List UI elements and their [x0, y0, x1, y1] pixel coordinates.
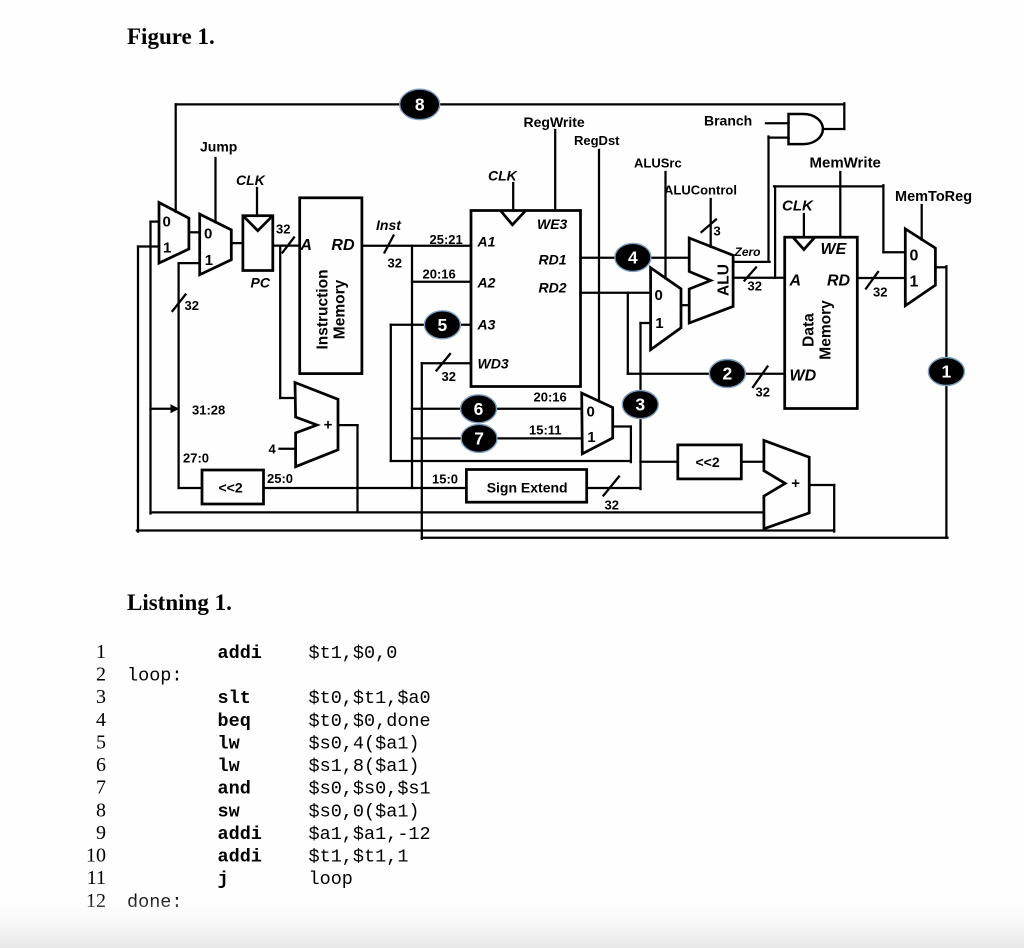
svg-text:27:0: 27:0 — [183, 451, 209, 466]
wire PC to Instruction Memory — [273, 244, 300, 246]
svg-text:A3: A3 — [477, 316, 496, 332]
svg-text:32: 32 — [873, 285, 887, 300]
svg-text:15:0: 15:0 — [432, 472, 458, 487]
mux M1 PCSrc — [159, 203, 189, 264]
mux M4 ALUSrc — [651, 268, 681, 350]
svg-text:A: A — [789, 272, 802, 289]
node marker 5 — [424, 311, 460, 339]
bus slash data memory RD — [866, 272, 878, 289]
adder A1 PC plus 4 — [295, 383, 338, 467]
svg-text:slt: slt — [218, 688, 251, 709]
svg-text:$a1,$a1,-12: $a1,$a1,-12 — [309, 824, 431, 845]
svg-text:A: A — [299, 237, 312, 254]
adder A2 branch target — [764, 440, 809, 528]
svg-text:Figure 1.: Figure 1. — [127, 24, 215, 49]
svg-text:1: 1 — [910, 274, 919, 291]
svg-text:CLK: CLK — [782, 198, 814, 215]
wire ALUResult bypass riser — [774, 186, 776, 277]
svg-text:32: 32 — [748, 279, 762, 294]
memory U1 Instruction Memory — [300, 198, 362, 374]
svg-text:32: 32 — [388, 256, 402, 271]
wire PCBranch bottom horizontal — [137, 529, 834, 531]
svg-text:WE: WE — [821, 241, 848, 258]
wire ALUResult to Data Memory A — [733, 277, 785, 279]
svg-text:RegWrite: RegWrite — [524, 114, 585, 130]
wire SignImm to branch shifter — [641, 461, 678, 463]
wire ALUResult bypass stub into mux5 — [883, 251, 905, 253]
wire CLK to register file — [512, 183, 514, 211]
wire PCPlus4 adder output stub — [338, 424, 358, 426]
svg-text:+: + — [324, 416, 333, 433]
wire 31:28 tap arrow — [151, 408, 172, 410]
svg-text:+: + — [791, 475, 800, 492]
shifter S1 jump shift left 2 — [202, 470, 264, 504]
wire ReadData to mux5 — [857, 277, 905, 279]
svg-text:MemToReg: MemToReg — [895, 189, 972, 205]
svg-text:MemWrite: MemWrite — [810, 155, 881, 172]
svg-text:loop: loop — [309, 869, 353, 890]
node marker 1 — [928, 358, 964, 386]
wire RD2 to ALUSrc mux — [581, 292, 651, 294]
register PC — [243, 216, 273, 271]
wire CLK to data memory — [803, 214, 805, 237]
svg-text:3: 3 — [714, 224, 721, 239]
svg-text:$s0,4($a1): $s0,4($a1) — [309, 733, 420, 754]
svg-text:addi: addi — [218, 643, 262, 664]
svg-text:<<2: <<2 — [219, 479, 243, 495]
wire 15:11 to RegDst mux input 1 — [412, 437, 582, 439]
wire PCBranch left riser — [137, 247, 139, 532]
svg-text:A2: A2 — [477, 275, 496, 291]
wire PCSrc top loop — [176, 103, 845, 105]
svg-text:6: 6 — [474, 399, 484, 419]
wire PCPlus4 output riser — [356, 425, 358, 512]
svg-text:CLK: CLK — [236, 172, 266, 188]
bus slash ALUControl 3 — [702, 220, 717, 233]
wire A3 input — [391, 324, 471, 326]
wire ALUSrc control drop — [664, 172, 666, 278]
svg-text:Inst: Inst — [376, 217, 402, 233]
wire AND output stub — [823, 128, 844, 130]
wire RegDst mux output riser — [630, 427, 632, 463]
svg-text:lw: lw — [218, 756, 240, 777]
svg-text:8: 8 — [415, 95, 425, 115]
svg-text:<<2: <<2 — [696, 454, 720, 470]
svg-text:2: 2 — [723, 364, 733, 384]
wire ALUResult bypass top — [774, 185, 883, 187]
svg-text:3: 3 — [96, 686, 106, 708]
gate G1 AND branch — [789, 114, 823, 144]
wire ALUResult bypass down leg — [882, 185, 884, 252]
svg-text:8: 8 — [96, 799, 106, 821]
wire 20:16 to RegDst mux input 0 — [412, 408, 582, 410]
register file U2 — [471, 211, 581, 387]
svg-text:RD2: RD2 — [539, 279, 567, 295]
svg-text:and: and — [218, 779, 251, 800]
svg-text:0: 0 — [910, 248, 919, 265]
svg-text:0: 0 — [163, 214, 171, 231]
svg-text:32: 32 — [442, 369, 456, 384]
wire Jump control drop — [214, 158, 216, 222]
svg-text:20:16: 20:16 — [534, 390, 567, 405]
svg-text:$t1,$0,0: $t1,$0,0 — [309, 643, 398, 664]
svg-text:Sign Extend: Sign Extend — [487, 479, 568, 495]
svg-text:10: 10 — [86, 845, 106, 867]
wire CLK to PC — [256, 188, 258, 216]
wire RegDst control drop — [598, 150, 600, 401]
alu U3 — [689, 238, 733, 323]
wire AND output right leg — [843, 103, 845, 129]
svg-text:addi: addi — [218, 847, 262, 868]
svg-text:0: 0 — [587, 404, 595, 421]
wire RegWrite control drop — [554, 130, 556, 211]
svg-text:$s0,0($a1): $s0,0($a1) — [309, 801, 420, 822]
svg-text:32: 32 — [605, 498, 619, 513]
wire jump shifter left stub — [179, 487, 202, 489]
wire branch shifter output — [741, 461, 764, 463]
svg-text:sw: sw — [218, 801, 240, 822]
wire constant 4 stub — [280, 448, 296, 450]
wire SignImm from Sign Extend — [587, 487, 641, 489]
svg-text:4: 4 — [628, 248, 638, 268]
bus slash Inst — [385, 236, 394, 253]
wire RD2 dropper to WD — [627, 293, 629, 374]
mux M3 RegDst — [582, 393, 613, 454]
svg-text:$s1,8($a1): $s1,8($a1) — [309, 756, 420, 777]
svg-text:0: 0 — [204, 226, 212, 243]
svg-text:3: 3 — [635, 395, 645, 415]
svg-text:2: 2 — [96, 664, 106, 686]
wire PCPlus4 left riser — [149, 222, 151, 514]
wire Result up leg to WD3 — [421, 363, 423, 539]
node marker 3 — [622, 391, 658, 419]
svg-text:RD1: RD1 — [539, 252, 567, 268]
svg-text:31:28: 31:28 — [192, 403, 225, 418]
svg-text:32: 32 — [185, 298, 199, 313]
svg-text:addi: addi — [218, 824, 262, 845]
svg-text:Memory: Memory — [818, 300, 835, 360]
svg-text:ALUControl: ALUControl — [664, 183, 737, 198]
wire Branch stub — [766, 122, 789, 124]
svg-text:$t0,$t1,$a0: $t0,$t1,$a0 — [309, 688, 431, 709]
svg-text:RD: RD — [827, 272, 851, 289]
wire jump address riser — [177, 263, 179, 488]
svg-text:25:21: 25:21 — [430, 232, 463, 247]
svg-text:j: j — [218, 869, 229, 890]
wire 20:16 to A2 — [412, 281, 471, 283]
svg-text:5: 5 — [438, 315, 448, 335]
wire MemToReg control drop — [921, 205, 923, 240]
wire SignImm riser — [639, 323, 641, 489]
wire mux1 to mux2 — [189, 231, 200, 233]
svg-text:Zero: Zero — [734, 245, 761, 259]
svg-text:32: 32 — [276, 222, 290, 237]
wire PC into +4 adder stub — [280, 397, 295, 399]
svg-text:1: 1 — [163, 240, 171, 257]
bus slash write data — [753, 367, 768, 388]
svg-text:Instruction: Instruction — [315, 269, 332, 349]
bus slash jump address — [173, 295, 186, 312]
svg-text:$t0,$0,done: $t0,$0,done — [309, 711, 431, 732]
block U5 Sign Extend — [466, 470, 586, 503]
svg-text:CLK: CLK — [488, 168, 518, 184]
svg-text:1: 1 — [942, 362, 952, 382]
svg-text:A1: A1 — [477, 234, 496, 250]
mux M2 Jump — [200, 214, 232, 275]
svg-text:1: 1 — [96, 641, 106, 663]
wire mux5 output stub — [935, 266, 946, 268]
svg-text:Branch: Branch — [704, 113, 752, 129]
svg-text:5: 5 — [96, 731, 106, 753]
svg-text:6: 6 — [96, 754, 106, 776]
wire ALUControl drop — [710, 199, 712, 247]
wire ALUSrc mux output stub — [681, 304, 689, 306]
svg-text:PC: PC — [251, 275, 271, 291]
svg-text:11: 11 — [87, 867, 106, 889]
svg-text:1: 1 — [655, 315, 663, 332]
bus slash WD3 — [437, 354, 451, 371]
svg-text:9: 9 — [96, 822, 106, 844]
svg-text:$s0,$s0,$s1: $s0,$s0,$s1 — [309, 779, 431, 800]
svg-text:ALU: ALU — [716, 264, 733, 296]
mux M5 MemToReg — [905, 229, 935, 306]
svg-text:$t1,$t1,1: $t1,$t1,1 — [309, 847, 409, 868]
node marker 6 — [461, 395, 497, 423]
svg-text:Jump: Jump — [200, 139, 237, 155]
svg-text:beq: beq — [218, 711, 251, 732]
wire PC value dropper — [279, 246, 281, 398]
svg-text:RegDst: RegDst — [574, 133, 620, 148]
wire MemWrite control drop — [839, 172, 841, 237]
svg-text:Data: Data — [801, 313, 818, 347]
svg-text:ALUSrc: ALUSrc — [634, 156, 682, 171]
wire ALUSrc mux input 1 stub — [641, 322, 651, 324]
shifter S2 branch shift left 2 — [678, 445, 742, 479]
svg-text:WD: WD — [790, 368, 817, 385]
wire mux1 input 0 stub — [151, 220, 160, 222]
wire RD1 to ALU — [581, 257, 690, 259]
wire Zero from ALU — [733, 261, 770, 263]
svg-text:25:0: 25:0 — [267, 471, 293, 486]
wire Zero to AND stub — [769, 136, 789, 138]
svg-text:4: 4 — [269, 442, 277, 457]
wire branch adder output stub — [809, 484, 834, 486]
wire mux2 input 1 stub — [179, 262, 200, 264]
svg-text:lw: lw — [218, 733, 240, 754]
svg-text:RD: RD — [331, 237, 355, 254]
svg-text:7: 7 — [474, 429, 484, 449]
wire A3 loop riser — [390, 325, 392, 461]
wire mux1 select drop — [175, 104, 177, 211]
node marker 2 — [709, 360, 745, 388]
wire instruction bus vertical — [411, 246, 413, 488]
bus slash ALU result — [745, 268, 757, 281]
bus slash PC output — [283, 238, 295, 253]
bus slash sign extend output — [604, 477, 620, 496]
memory U4 Data Memory — [785, 237, 858, 408]
svg-text:loop:: loop: — [127, 666, 183, 687]
wire PCPlus4 bottom horizontal — [151, 511, 764, 513]
wire RegDst mux output stub — [613, 425, 631, 427]
wire Result riser right — [945, 266, 947, 538]
svg-text:1: 1 — [205, 252, 213, 269]
svg-text:1: 1 — [587, 429, 595, 446]
wire Inst to A1 — [362, 245, 471, 247]
wire Result bottom horizontal — [422, 537, 948, 539]
svg-text:Memory: Memory — [332, 279, 349, 339]
svg-text:Listning 1.: Listning 1. — [127, 590, 232, 615]
svg-text:15:11: 15:11 — [529, 423, 562, 438]
node arrowhead 31:28 — [171, 404, 180, 413]
wire A3 loop bottom — [391, 460, 631, 462]
node marker 4 — [615, 243, 651, 271]
svg-text:4: 4 — [96, 709, 106, 731]
svg-text:7: 7 — [96, 777, 106, 799]
node marker 7 — [461, 424, 497, 452]
wire Zero riser — [767, 137, 769, 262]
node marker 8 — [400, 89, 440, 119]
svg-text:0: 0 — [655, 287, 663, 304]
wire WriteData to Data Memory WD — [628, 373, 785, 375]
wire PCBranch right riser — [833, 485, 835, 532]
svg-text:20:16: 20:16 — [423, 267, 456, 282]
wire mux2 to PC — [231, 242, 243, 244]
svg-text:32: 32 — [756, 385, 770, 400]
wire WD3 input — [422, 362, 471, 364]
svg-text:WD3: WD3 — [478, 355, 509, 371]
wire mux1 input 1 stub — [138, 245, 159, 247]
svg-text:WE3: WE3 — [537, 216, 568, 232]
wire 25:0 and 15:0 horizontal — [263, 487, 466, 489]
